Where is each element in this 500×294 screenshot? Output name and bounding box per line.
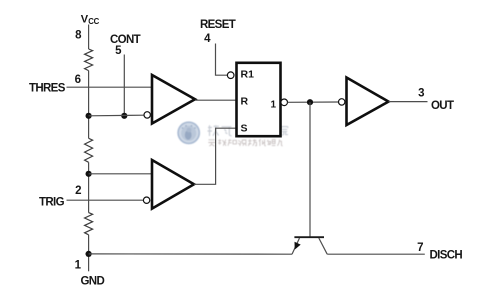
VCC label (81, 13, 100, 26)
svg-text:TRIG: TRIG (39, 197, 65, 209)
op-amp comparator 1 (threshold) (152, 75, 195, 124)
resistor (bottom of divider) (85, 213, 93, 235)
svg-text:S: S (241, 123, 248, 135)
svg-text:R: R (241, 96, 249, 108)
wire divider lower segment (88, 235, 90, 271)
wire collector to DISCH (327, 253, 425, 255)
wire TRIG to comparator 2 inverting input (67, 199, 144, 201)
svg-text:8: 8 (75, 30, 82, 42)
op-amp comparator 2 (trigger) (152, 160, 194, 209)
svg-text:6: 6 (75, 74, 81, 86)
svg-text:RESET: RESET (200, 19, 236, 31)
wire output node to transistor base (309, 102, 311, 237)
svg-text:3: 3 (418, 88, 424, 100)
svg-text:OUT: OUT (431, 100, 454, 112)
node B junction dot (86, 171, 92, 177)
flip-flop box (237, 63, 281, 136)
wire THRES to comparator 1 (67, 86, 152, 88)
svg-text:R1: R1 (241, 68, 255, 80)
output buffer inverter (347, 78, 389, 126)
svg-text:1: 1 (75, 260, 82, 272)
watermark logo badge (177, 122, 200, 145)
wire comparator 2 output to S input (194, 128, 236, 184)
wire node B to comparator 2 input (89, 173, 152, 175)
R1 input bubble (227, 72, 234, 79)
watermark text line 1 (208, 125, 289, 136)
wire comparator 1 output to R input (195, 99, 236, 101)
CONT junction dot (121, 113, 127, 119)
svg-text:1: 1 (271, 100, 277, 111)
transistor Q1 emitter arrow (295, 242, 301, 250)
transistor Q1 base bar (294, 236, 324, 238)
svg-text:GND: GND (81, 276, 105, 288)
svg-text:2: 2 (75, 185, 81, 197)
watermark text line 2 (208, 139, 282, 146)
wire divider middle segment (88, 162, 90, 212)
svg-text:THRES: THRES (29, 83, 66, 95)
node A junction dot (86, 113, 92, 119)
wire node A to comparator 1 inverting input (89, 114, 144, 117)
wire flip-flop output to inverter (288, 101, 339, 103)
wire RESET to R1 bubble (216, 44, 228, 76)
comparator 2 inverting input bubble (143, 197, 149, 203)
svg-text:CC: CC (88, 17, 99, 26)
inverter input bubble (339, 99, 345, 105)
svg-text:DISCH: DISCH (430, 250, 463, 262)
comparator 1 inverting input bubble (144, 112, 150, 118)
svg-text:4: 4 (204, 33, 211, 45)
resistor (top of divider) (85, 49, 93, 71)
svg-text:5: 5 (115, 45, 122, 57)
svg-text:7: 7 (417, 242, 423, 254)
wire inverter output to OUT (389, 101, 428, 103)
ground node junction dot (86, 251, 92, 257)
wire ground rail to emitter (89, 253, 292, 255)
wire VCC stem (88, 25, 90, 50)
flip-flop output bubble (281, 99, 288, 106)
transistor Q1 emitter (292, 238, 300, 254)
transistor Q1 collector (319, 238, 327, 254)
resistor (middle of divider) (85, 138, 93, 162)
wire CONT vertical (123, 55, 125, 116)
wire divider upper segment (88, 71, 90, 139)
output node junction dot (307, 99, 313, 105)
